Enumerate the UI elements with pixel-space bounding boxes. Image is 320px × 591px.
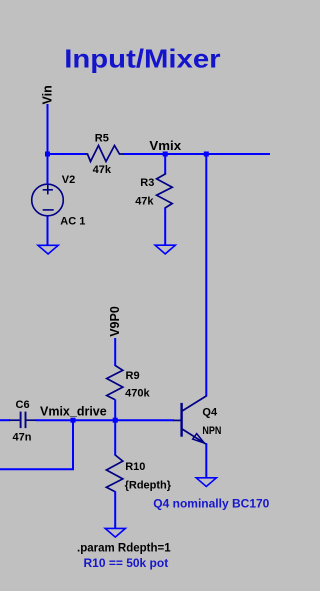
wire Vin junction to R5 [48, 153, 87, 155]
ground below V2 [38, 245, 58, 254]
svg-text:R10 == 50k pot: R10 == 50k pot [84, 556, 169, 570]
wire Vmix to R3 [164, 154, 166, 175]
resistor R10 [106, 455, 122, 492]
wire R9 to Vmix_drive [114, 400, 116, 421]
svg-text:{Rdepth}: {Rdepth} [125, 479, 172, 491]
wire emitter to ground [205, 443, 207, 478]
voltage source V2 [32, 184, 64, 216]
wire Vmix_drive to base [73, 419, 174, 421]
wire bottom-left horizontal [0, 468, 74, 470]
ground below R10 [105, 528, 125, 537]
svg-text:NPN: NPN [202, 425, 221, 437]
transistor Q4 [173, 396, 206, 444]
svg-text:470k: 470k [125, 388, 150, 400]
svg-text:R3: R3 [140, 177, 154, 189]
svg-text:C6: C6 [16, 399, 30, 411]
node junction Vmix/R3 [163, 152, 168, 157]
wire R10 to ground [114, 491, 116, 528]
node junction Vin/V2/R5 [45, 152, 50, 157]
wire R3 to ground [164, 208, 166, 245]
wire Vmix_drive down [72, 420, 74, 469]
resistor R5 [85, 146, 123, 162]
svg-text:47n: 47n [13, 431, 32, 443]
ground below Q4 emitter [196, 478, 216, 487]
svg-text:R5: R5 [95, 133, 109, 145]
capacitor C6 [0, 419, 10, 421]
resistor R3 [157, 173, 173, 209]
wire Vin vertical [47, 104, 49, 154]
svg-text:V2: V2 [62, 174, 75, 186]
svg-text:47k: 47k [135, 195, 154, 207]
svg-text:V9P0: V9P0 [108, 306, 122, 337]
svg-text:Input/Mixer: Input/Mixer [64, 44, 221, 73]
svg-text:Q4 nominally BC170: Q4 nominally BC170 [153, 497, 269, 511]
wire C6 to Vmix_drive junction [36, 419, 73, 421]
svg-text:Vin: Vin [41, 85, 55, 104]
svg-text:.param Rdepth=1: .param Rdepth=1 [77, 543, 171, 555]
node junction R9/R10 [113, 418, 118, 423]
svg-text:Vmix_drive: Vmix_drive [40, 404, 107, 418]
ground below R3 [155, 245, 175, 254]
node junction Vmix/collector [204, 152, 209, 157]
wire R5 to right edge (Vmix net) [123, 153, 270, 155]
resistor R9 [107, 366, 123, 400]
node junction Vmix_drive [71, 418, 76, 423]
wire V9P0 to R9 [114, 338, 116, 366]
wire V2 bottom [47, 216, 49, 246]
wire junction to R10 [114, 420, 116, 455]
svg-text:R10: R10 [125, 461, 145, 473]
wire V2 top [47, 154, 49, 185]
svg-text:Vmix: Vmix [149, 138, 182, 153]
svg-text:AC 1: AC 1 [60, 216, 85, 228]
svg-text:R9: R9 [126, 370, 140, 382]
wire Vmix down to Q4 collector [205, 154, 207, 397]
svg-text:47k: 47k [93, 164, 112, 176]
svg-text:Q4: Q4 [202, 406, 218, 418]
